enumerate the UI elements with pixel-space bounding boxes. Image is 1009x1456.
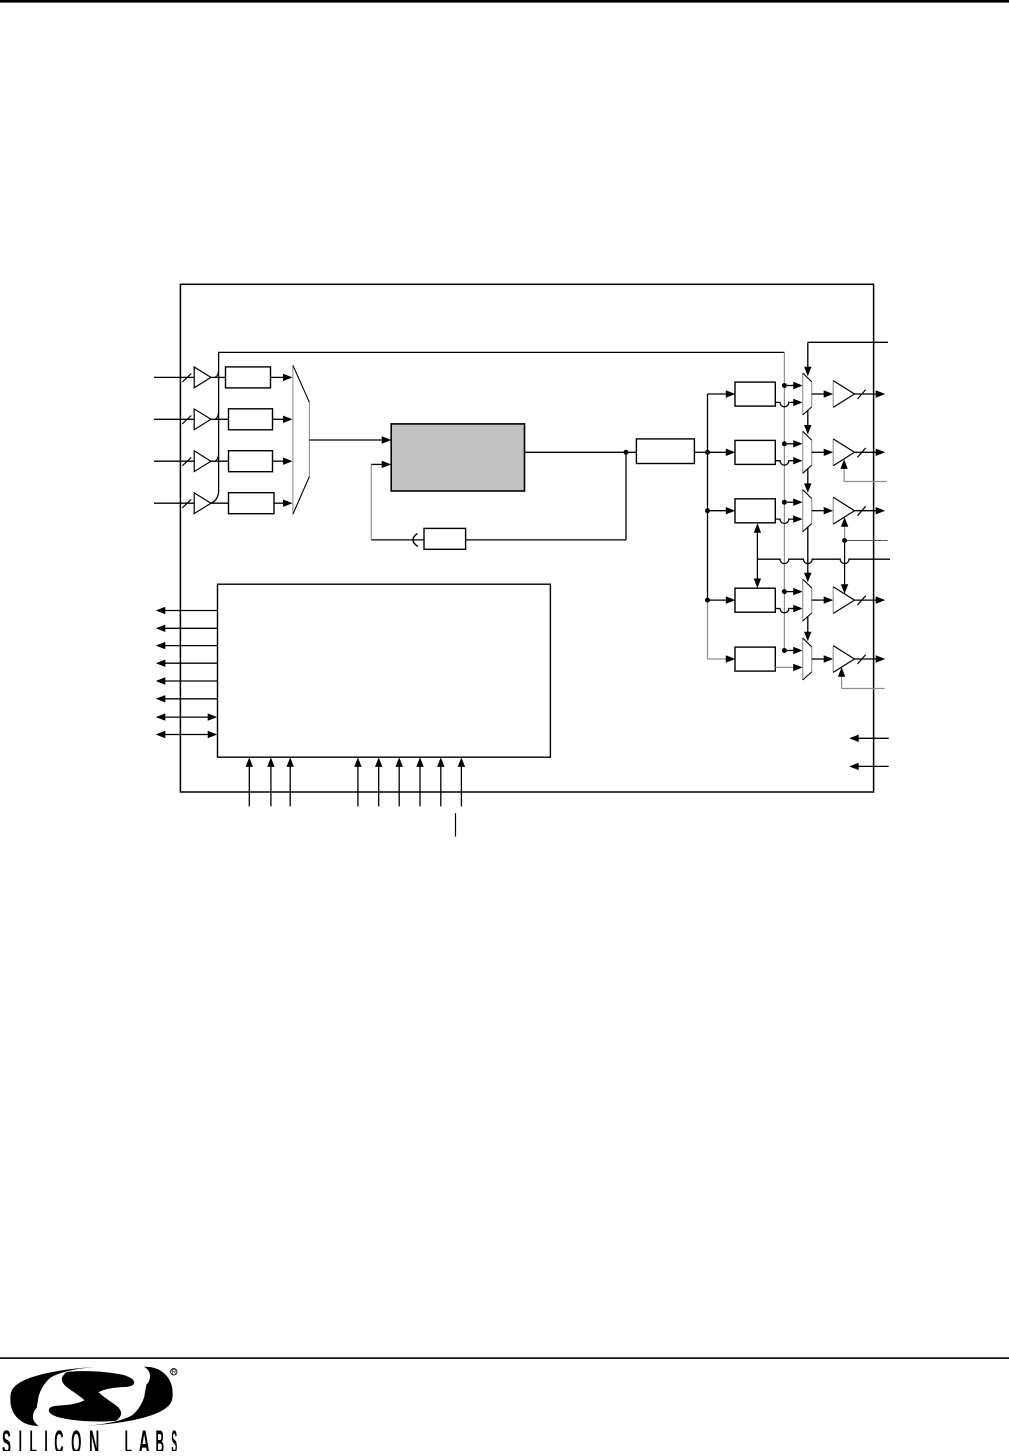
svg-text:B: B [156,1424,165,1451]
open curved arrowhead on feedback wire [413,533,418,546]
junction: feedback drop row 1 [782,441,787,446]
MS4 output wire with hop [775,666,793,668]
mux select cascade into mux 3 [807,527,809,574]
input divider P2 [229,409,273,430]
status output pin wire S2 [165,627,218,629]
feedback bottom wire left segment [371,539,424,541]
wire-hop arc at feedback riser crossing (row 1) [215,371,219,378]
Silicon Labs logo swirl: right crescent [88,1367,173,1426]
PLL output wire [525,451,637,453]
output pin wire CLK0 [855,393,877,395]
control input pin wire C5 [378,767,380,807]
MS1 output wire with hop [775,461,793,465]
junction: feedback drop row 3 [782,589,787,594]
input buffer IN2 [194,409,211,430]
output buffer CLK0 [833,381,854,408]
wire trunk to MultiSynth MS0 [708,393,727,395]
output mux 3 [803,579,812,621]
control and register block [218,584,551,757]
MultiSynth divider MS0 [735,382,775,406]
input divider P4 [229,493,275,514]
output pin wire CLK2 [855,510,877,512]
junction: trunk row D [705,598,710,603]
wire feedback drop to output mux 1 [787,443,794,445]
junction: feedback drop row 2 [782,500,787,505]
wire buffer IN2 to divider P2 [211,418,229,420]
control input pin wire C6 [398,767,400,807]
svg-text:R: R [172,1369,177,1376]
wire trunk to MultiSynth MS4 [708,658,727,660]
chip boundary U1 [180,284,873,792]
status output pin wire S5 [165,680,218,682]
input pin wire IN3 [154,460,194,462]
svg-text:I: I [19,1424,22,1451]
svg-text:L: L [30,1424,37,1451]
MS0 output wire with hop [775,402,793,406]
bus-width slash on CLK4 output [858,655,866,664]
input pin wire IN1 [154,376,194,378]
wire feedback drop to output mux 4 [787,650,794,652]
junction: feedback drop row 4 [782,648,787,653]
output mux 2 [803,490,812,532]
MS2 output wire with hop [775,519,793,523]
feedback pin riser to MS2 [756,532,758,559]
junction: PLL output / feedback tap [624,450,629,455]
junction OEB2/3 [842,538,847,543]
svg-text:A: A [139,1424,150,1451]
svg-text:I: I [44,1424,47,1451]
output pin wire CLK3 [855,599,877,601]
wire divider P1 to input mux [271,376,285,378]
wire output mux 1 to buffer [812,451,824,453]
status output pin wire S3 [165,645,218,647]
registered trademark symbol [171,1369,177,1375]
Silicon Labs logo swirl: left crescent [10,1367,95,1426]
feedback bottom wire right segment [466,539,626,541]
output mux 1 [803,431,812,473]
wire feedback drop to output mux 2 [787,501,794,503]
bus-width slash on IN3 [182,457,191,465]
status output pin wire S1 [165,610,218,612]
svg-text:S: S [171,1424,177,1451]
wire output mux 0 to buffer [812,393,824,395]
feedback net: top horizontal run [218,351,784,353]
feedback rise wire to PLL fb input [370,464,372,540]
serial input pin SCL [859,765,889,767]
stray tick mark [455,813,457,837]
wire-hop arc at feedback riser crossing (row 2) [215,413,219,420]
input pin wire IN4 [154,502,194,504]
wire divider P3 to input mux [273,460,285,462]
junction: trunk / VCO output [705,450,710,455]
wire feedback drop to output mux 0 [787,385,794,387]
output buffer CLK4 [833,646,854,673]
status output pin wire S6 [165,698,218,700]
control input pin wire C3 [289,767,291,807]
control input pin wire C9 [460,767,462,807]
MultiSynth divider MS3 [735,588,775,612]
output enable net OEB4 [842,688,885,690]
control input pin wire C7 [419,767,421,807]
feedback pin drop to MS3 [756,559,758,579]
mux select cascade into mux 4 [807,616,809,632]
serial input pin SDA [859,737,889,739]
MultiSynth divider MS4 [735,647,775,671]
bus-width slash on CLK2 output [858,506,866,515]
mux select cascade into mux 1 [807,410,809,425]
output buffer CLK3 [833,587,854,614]
bidirectional pin wire B1 [165,716,209,718]
output mux 0 [803,373,812,415]
wire buffer IN1 to divider P1 [211,376,226,378]
OEB wire down to buffer CLK3 [844,541,846,587]
bus-width slash on CLK0 output [858,390,866,399]
Silicon Labs logo swirl: central S [49,1371,134,1421]
junction: trunk row C [705,508,710,513]
wire trunk to MultiSynth MS3 [708,599,727,601]
output buffer CLK2 [833,497,854,524]
wire into PLL feedback input [371,463,382,465]
wire output mux 4 to buffer [812,658,824,660]
output enable net OEB2/OEB3 pin wire [845,540,888,542]
wire divider P4 to input mux [274,502,284,504]
wire trunk to MultiSynth MS2 [708,510,727,512]
junction: feedback drop row 0 [782,383,787,388]
page header rule [0,0,1009,3]
wire buffer IN3 to divider P3 [211,460,229,462]
wire-hop arc at feedback riser crossing (row 3) [215,455,219,462]
output buffer CLK1 [833,439,854,466]
wire feedback drop to output mux 3 [787,591,794,593]
MS3 output wire with hop [775,609,793,613]
OEB wire up to buffer CLK2 [844,525,846,538]
svg-text:C: C [54,1424,63,1451]
external feedback pin net [757,559,890,563]
input pin wire IN2 [154,418,194,420]
control input pin wire C1 [248,767,250,807]
svg-text:N: N [89,1424,99,1451]
feedback net: right vertical drop to output muxes [783,352,785,650]
output mux 4 [803,638,812,680]
output enable net OEB1 [844,481,887,483]
bus-width slash on IN2 [182,416,191,424]
PLL block [391,424,524,491]
input divider P1 [226,367,271,388]
wire buffer IN4 to divider P4 [211,502,229,504]
bus-width slash on IN4 [182,499,191,507]
input clock mux [293,365,310,514]
wire divider P2 to input mux [273,418,285,420]
input divider P3 [229,451,273,472]
svg-text:S: S [2,1424,11,1451]
feedback drop wire [625,452,627,540]
bus-width slash on CLK1 output [858,448,866,457]
wire trunk to MultiSynth MS1 [708,451,727,453]
output pin wire CLK4 [855,658,877,660]
bus-width slash on IN1 [182,374,191,382]
mux select cascade into mux 0 [807,342,809,367]
input buffer IN4 [194,493,211,514]
MultiSynth divider MS1 [735,440,775,464]
status output pin wire S4 [165,662,218,664]
wire output mux 3 to buffer [812,599,824,601]
output pin wire CLK1 [855,451,877,453]
input buffer IN3 [194,451,211,472]
wire output mux 2 to buffer [812,510,824,512]
mux select cascade into mux 2 [807,468,809,484]
svg-text:O: O [71,1424,81,1451]
page footer rule [0,1357,1009,1359]
svg-text:L: L [125,1424,132,1451]
VCO divider block [636,439,694,464]
mux select net from chip pin [808,341,888,343]
MultiSynth divider MS2 [735,499,775,523]
bidirectional pin wire B2 [165,734,209,736]
control input pin wire C2 [270,767,272,807]
control input pin wire C4 [357,767,359,807]
feedback net: vertical riser from IN4 divider input [211,352,218,503]
clock distribution trunk [694,451,707,453]
input buffer IN1 [194,367,211,388]
wire input mux to PLL [309,439,382,441]
bus-width slash on CLK3 output [858,596,866,605]
control input pin wire C8 [440,767,442,807]
feedback divider block [424,528,466,549]
